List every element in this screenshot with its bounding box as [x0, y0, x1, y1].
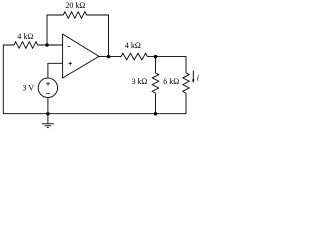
- svg-text:3 kΩ: 3 kΩ: [131, 77, 147, 86]
- node 3k top junction: [154, 55, 158, 59]
- ground stub: [47, 114, 49, 124]
- resistor R5 6 kOhm: [183, 73, 189, 94]
- svg-text:20 kΩ: 20 kΩ: [65, 1, 85, 10]
- node source ground junction: [46, 112, 50, 116]
- wire 3k bottom: [155, 93, 157, 113]
- svg-text:4 kΩ: 4 kΩ: [17, 32, 33, 41]
- op-amp U1: [63, 34, 99, 78]
- svg-text:6 kΩ: 6 kΩ: [163, 77, 179, 86]
- source plus sign: [46, 82, 50, 86]
- wire 3k top: [155, 57, 157, 73]
- svg-text:4 kΩ: 4 kΩ: [125, 41, 141, 50]
- svg-text:i: i: [197, 74, 199, 83]
- wire feedback up and top left stub: [47, 15, 63, 45]
- node output junction: [107, 55, 111, 59]
- resistor R3 4 kOhm output: [121, 53, 148, 60]
- wire output: [99, 56, 121, 58]
- svg-text:3 V: 3 V: [22, 83, 34, 92]
- wire source to rail: [47, 98, 49, 114]
- ground: [42, 124, 54, 128]
- wire feedback top right and down: [87, 15, 109, 57]
- voltage source Vs circle: [38, 78, 57, 97]
- op-amp minus sign: [68, 45, 71, 47]
- wire noninverting input: [48, 63, 63, 78]
- node A inverting input junction: [45, 43, 49, 47]
- op-amp plus sign: [68, 62, 72, 66]
- wire left vertical and bottom rail: [3, 45, 186, 114]
- resistor R2 20 kOhm feedback: [63, 12, 86, 19]
- wire node A to op-amp: [38, 44, 63, 46]
- resistor R1 4 kOhm input: [14, 42, 38, 49]
- node 3k bottom junction: [154, 112, 158, 116]
- source minus sign: [46, 93, 49, 95]
- current arrow i: [192, 71, 195, 84]
- wire to 3k node and 6k top: [148, 57, 187, 73]
- resistor R4 3 kOhm: [152, 73, 158, 94]
